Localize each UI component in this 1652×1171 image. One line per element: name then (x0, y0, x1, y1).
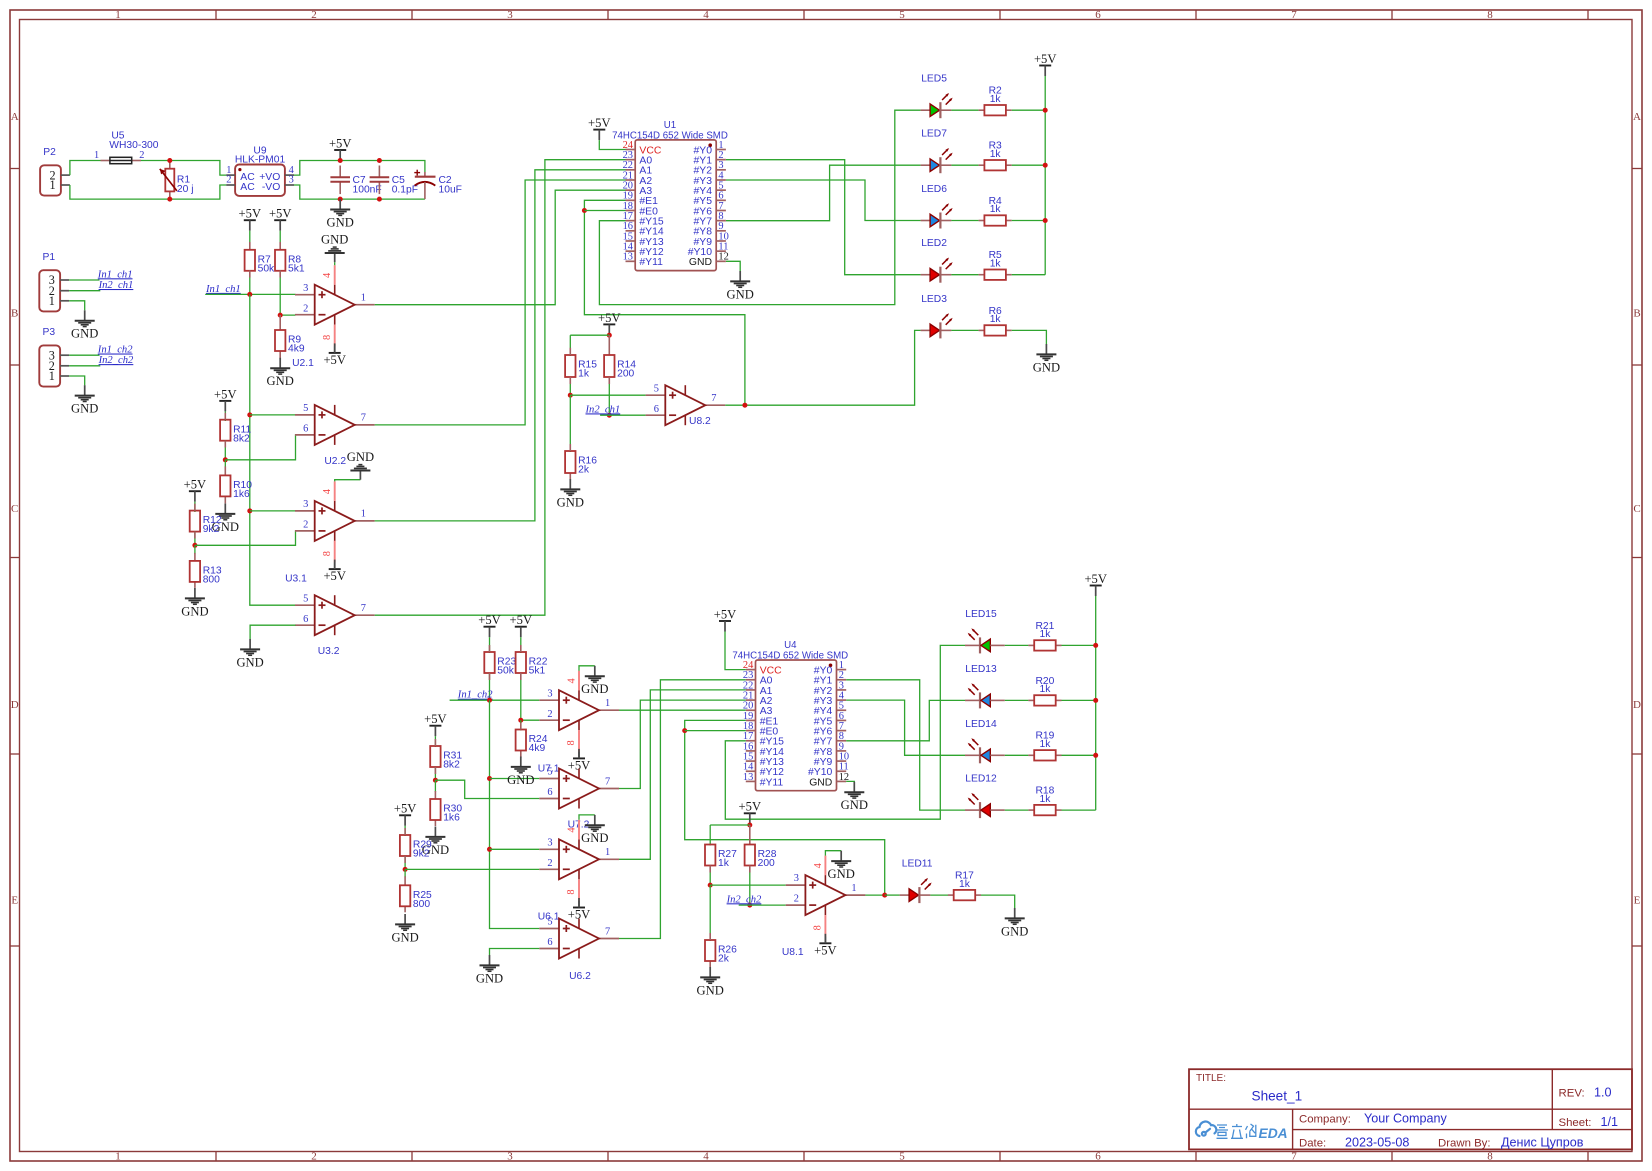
svg-text:3: 3 (303, 499, 308, 510)
resistor R15 (565, 355, 575, 377)
node LED bus row2 (1043, 163, 1048, 168)
svg-text:#Y11: #Y11 (760, 777, 784, 788)
svg-text:GND: GND (71, 402, 98, 416)
svg-text:8k2: 8k2 (443, 760, 460, 771)
+5V LED bus bottom (1090, 585, 1102, 587)
svg-text:A: A (1633, 111, 1641, 123)
svg-text:5: 5 (654, 383, 659, 394)
wire R3 to +5V bus (1012, 164, 1045, 166)
resistor R23 (484, 652, 494, 673)
wire into R15 (569, 335, 571, 356)
svg-text:E: E (11, 894, 18, 906)
ground U1 (739, 271, 741, 281)
svg-text:REV:: REV: (1559, 1087, 1585, 1099)
svg-text:6: 6 (654, 404, 659, 415)
LED LED11 (900, 894, 910, 896)
svg-text:GND: GND (181, 604, 208, 618)
svg-text:GND: GND (347, 450, 374, 464)
wire LED6 to R4 (951, 220, 978, 222)
wire U4 #Y3 to LED14 (846, 700, 965, 755)
wire U8.1 out (865, 894, 884, 896)
op-amp U2.1 GND (334, 253, 336, 262)
op-amp U2.1 pin 4 (334, 265, 336, 285)
svg-text:LED7: LED7 (921, 129, 947, 140)
ground R17 (1014, 908, 1016, 918)
svg-text:+5V: +5V (329, 136, 352, 150)
op-amp U3.1 (295, 510, 315, 512)
svg-text:WH30-300: WH30-300 (109, 140, 158, 151)
node R1 top (167, 158, 172, 163)
op-amp U7.1 pin 8 (578, 730, 580, 752)
svg-text:1k: 1k (990, 149, 1002, 160)
svg-text:P2: P2 (43, 147, 56, 158)
svg-text:5: 5 (547, 767, 552, 778)
node U8.1 out (882, 893, 887, 898)
svg-text:D: D (11, 699, 19, 711)
resistor R29 (400, 835, 410, 856)
svg-text:8: 8 (322, 335, 333, 340)
ground R6 (1045, 344, 1047, 354)
svg-text:7: 7 (605, 776, 610, 787)
wire LED12 to R18 (1005, 809, 1029, 811)
svg-text:In2_ch2: In2_ch2 (726, 894, 762, 905)
op-amp U7.1 (539, 699, 559, 701)
svg-text:6: 6 (1095, 9, 1101, 21)
svg-text:2k: 2k (578, 465, 590, 476)
svg-text:8: 8 (813, 925, 824, 930)
wire P1 pin1 to ground (69, 301, 85, 311)
svg-text:1: 1 (49, 294, 55, 308)
svg-text:1k: 1k (990, 314, 1002, 325)
ground R9 (279, 358, 281, 368)
svg-text:1: 1 (361, 293, 366, 304)
wire U7.1 out to U4 A3 (619, 709, 746, 711)
op-amp U8.1 pin 8 (824, 915, 826, 937)
svg-text:7: 7 (711, 393, 716, 404)
resistor R7 (249, 242, 251, 250)
svg-text:HLK-PM01: HLK-PM01 (235, 154, 286, 165)
resistor R5 (979, 274, 985, 276)
svg-text:U2.2: U2.2 (324, 456, 346, 467)
resistor R11 (220, 420, 230, 441)
svg-text:4: 4 (703, 9, 709, 21)
resistor R8 (279, 242, 281, 250)
svg-text:In1_ch1: In1_ch1 (205, 284, 241, 295)
svg-text:B: B (1633, 307, 1640, 319)
wire +5V LED bus bottom (1095, 596, 1097, 810)
wire node to R24 (520, 720, 522, 730)
wire U4 #Y7 to LED13 (846, 700, 965, 740)
svg-text:C: C (1633, 503, 1640, 515)
svg-text:5k1: 5k1 (529, 666, 546, 677)
svg-text:+5V: +5V (814, 943, 837, 957)
svg-text:3: 3 (289, 175, 294, 186)
wire U1 #Y3 to LED6 (726, 180, 921, 221)
node R14 / In2_ch1 (607, 413, 612, 418)
ground C7 (339, 199, 341, 209)
svg-text:8: 8 (566, 740, 577, 745)
wire to U8.2 pin5 (570, 394, 645, 396)
resistor R3 (979, 164, 985, 166)
svg-text:1: 1 (115, 1150, 121, 1162)
decoder U4 (756, 660, 837, 791)
svg-text:6: 6 (547, 937, 552, 948)
node R15/R16/U8.2 pin5 (568, 393, 573, 398)
+5V R11 (219, 400, 231, 402)
svg-text:EDA: EDA (1259, 1126, 1288, 1141)
svg-text:5: 5 (303, 403, 308, 414)
svg-text:5k1: 5k1 (288, 263, 305, 274)
wire P2 pin2 to fuse (70, 161, 101, 176)
wire to U8.1 pin3 (710, 884, 786, 886)
svg-text:6: 6 (303, 614, 308, 625)
svg-text:50k: 50k (258, 263, 275, 274)
svg-text:B: B (11, 307, 18, 319)
svg-text:4k9: 4k9 (529, 743, 546, 754)
wire U1 #Y1 to LED2 (726, 160, 921, 275)
wire U2.2 out to U1 A2 (375, 180, 626, 425)
resistor R9 (279, 315, 281, 330)
wire LED14 to R19 (1005, 754, 1029, 756)
wire R15 to node (569, 377, 571, 395)
svg-text:3: 3 (303, 283, 308, 294)
resistor R27 (705, 845, 715, 866)
svg-text:Денис Цупров: Денис Цупров (1501, 1136, 1584, 1150)
svg-text:1k: 1k (1040, 739, 1052, 750)
svg-text:GND: GND (581, 831, 608, 845)
ground R13 (194, 588, 196, 598)
svg-text:5: 5 (547, 917, 552, 928)
wire R2 to +5V bus (1012, 109, 1045, 111)
wire R28 to U8.1 pin2 (749, 866, 751, 906)
op-amp U8.1 GND (840, 851, 842, 861)
svg-text:+5V: +5V (1034, 52, 1057, 66)
node R29 / R25 (403, 867, 408, 872)
op-amp U6.1 +5V (573, 907, 585, 909)
op-amp U6.2 (539, 928, 559, 930)
svg-text:2: 2 (303, 303, 308, 314)
wire P1 pin3 (69, 279, 99, 281)
wire R21 to +5V bus (1062, 644, 1096, 646)
wire to U1 #E0 (584, 210, 625, 212)
svg-text:8: 8 (566, 889, 577, 894)
svg-text:LED6: LED6 (921, 184, 947, 195)
op-amp U6.1 pin 8 (578, 879, 580, 901)
svg-text:GND: GND (727, 287, 754, 301)
svg-text:GND: GND (267, 374, 294, 388)
LED LED15 (965, 644, 980, 646)
svg-text:13: 13 (743, 772, 753, 783)
resistor R12 (190, 511, 200, 532)
wire U4 #E0/#E1 from U8.1 (685, 720, 885, 895)
svg-text:1: 1 (115, 9, 121, 21)
wire to LED11 (885, 894, 900, 896)
node LED bus row1 (1093, 643, 1098, 648)
svg-text:U3.2: U3.2 (318, 646, 340, 657)
wire +5V to R23 (489, 637, 491, 653)
svg-text:+5V: +5V (510, 613, 533, 627)
node C7 top (338, 158, 343, 163)
connector P1 (39, 270, 60, 311)
svg-text:50k: 50k (497, 666, 514, 677)
node In1_ch1 / R7 (247, 292, 252, 297)
wire U4 #Y1 to LED12 (846, 680, 965, 810)
svg-text:GND: GND (1033, 360, 1060, 374)
wire node to R13 (194, 545, 196, 554)
title block (1189, 1069, 1632, 1149)
wire U4 GND pin (846, 780, 854, 783)
svg-text:2: 2 (311, 9, 317, 21)
wire +5V LED bus (1044, 76, 1046, 275)
fuse U5 (101, 160, 110, 162)
wire U1 #Y15 to LED5 (599, 110, 920, 304)
op-amp U2.1 +5V (329, 352, 341, 354)
wire R29 to R25 (404, 856, 406, 869)
wire P2 pin1 to U9 pin2 (70, 185, 226, 199)
decoder U1 (635, 140, 716, 271)
svg-text:LED5: LED5 (921, 74, 947, 85)
op-amp U8.1 +5V (819, 942, 831, 944)
wire node to R25 (404, 869, 406, 877)
svg-text:2: 2 (139, 150, 144, 161)
wire U8.2 out to LED3 (745, 330, 921, 405)
node R31 / R30 (433, 778, 438, 783)
svg-text:8: 8 (1487, 1150, 1493, 1162)
svg-text:TITLE:: TITLE: (1196, 1073, 1226, 1084)
svg-text:2: 2 (311, 1150, 317, 1162)
wire R4 to +5V bus (1012, 220, 1045, 222)
wire LED2 to R5 (951, 274, 978, 276)
wire R11 to R10 (224, 441, 226, 460)
wire U1 #Y7 to LED7 (726, 165, 921, 221)
wire +5V to R8 (279, 231, 281, 242)
svg-text:#Y11: #Y11 (639, 257, 663, 268)
svg-text:200: 200 (617, 369, 634, 380)
svg-text:+5V: +5V (714, 607, 737, 621)
LED LED14 (965, 754, 980, 756)
svg-text:1: 1 (49, 369, 55, 383)
svg-text:1.0: 1.0 (1594, 1086, 1612, 1100)
wire node to R30 (434, 780, 436, 792)
node R8 / R9 (278, 313, 283, 318)
AC-DC module U9 (235, 165, 285, 196)
+5V U8.1 divider (744, 812, 756, 814)
LED LED6 (921, 220, 931, 222)
svg-text:+5V: +5V (394, 802, 417, 816)
+5V U8.2 divider (603, 323, 615, 325)
svg-text:Sheet_1: Sheet_1 (1252, 1088, 1303, 1103)
svg-text:LED3: LED3 (921, 294, 947, 305)
+5V R12 (189, 490, 201, 492)
node C5 top (377, 158, 382, 163)
ground R26 (709, 967, 711, 977)
node C7 bottom (338, 197, 343, 202)
svg-text:+5V: +5V (739, 800, 762, 814)
node +5V R27/R28 (747, 823, 752, 828)
svg-text:1k: 1k (959, 879, 971, 890)
op-amp U2.2 (295, 414, 315, 416)
wire P3 pin3 (69, 354, 99, 356)
op-amp U2.1 (295, 294, 315, 296)
svg-text:3: 3 (507, 1150, 513, 1162)
svg-text:6: 6 (303, 424, 308, 435)
ground U3.2 (249, 639, 251, 649)
+5V R7 (244, 219, 256, 221)
svg-text:-VO: -VO (262, 182, 280, 193)
wire fuse to U9 pin1 (141, 161, 226, 176)
op-amp U2.1 pin 8 (334, 325, 336, 347)
resistor R18 (1028, 809, 1034, 811)
wire R6 to ground (1012, 330, 1047, 344)
capacitor C2 (424, 172, 426, 177)
svg-text:7: 7 (361, 603, 366, 614)
ground R25 (404, 914, 406, 924)
wire In1_ch1 to U2.1 pin3 (205, 293, 295, 295)
svg-text:5: 5 (899, 9, 905, 21)
op-amp U7.1 GND (594, 666, 596, 676)
svg-text:9k2: 9k2 (413, 849, 430, 860)
wire U8.2 out (725, 404, 745, 406)
resistor R2 (979, 109, 985, 111)
svg-text:GND: GND (391, 930, 418, 944)
node R22 / R24 (518, 718, 523, 723)
svg-text:2: 2 (226, 175, 231, 186)
svg-text:AC: AC (240, 182, 255, 193)
connector P3 (39, 345, 60, 386)
wire to U6.1 pin3 (490, 848, 540, 850)
wire LED11 to R17 (930, 894, 948, 896)
svg-text:GND: GND (809, 777, 832, 788)
svg-text:GND: GND (557, 495, 584, 509)
svg-text:Your Company: Your Company (1364, 1112, 1448, 1126)
wire LED3 to R6 (951, 329, 978, 331)
op-amp U6.1 GND (594, 815, 596, 825)
svg-text:LED13: LED13 (965, 664, 997, 675)
svg-text:GND: GND (697, 983, 724, 997)
wire node to R26 (709, 885, 711, 941)
ground U6.2 (489, 955, 491, 965)
svg-text:2: 2 (303, 520, 308, 531)
svg-text:0.1pF: 0.1pF (392, 185, 418, 196)
svg-text:2: 2 (547, 858, 552, 869)
svg-text:GND: GND (1001, 924, 1028, 938)
op-amp U3.2 (295, 604, 315, 606)
resistor R4 (979, 220, 985, 222)
op-amp U6.1 pin 4 (578, 820, 580, 840)
svg-text:1k: 1k (1040, 684, 1052, 695)
svg-text:8: 8 (1487, 9, 1493, 21)
svg-text:In2_ch2: In2_ch2 (98, 355, 134, 366)
wire to U4 #E0 (685, 730, 746, 732)
wire R27 top (710, 824, 750, 826)
svg-text:20 j: 20 j (177, 184, 194, 195)
wire R14 to U8.2 pin6 (608, 377, 610, 415)
wire divider to U7.2 pin6 (435, 780, 539, 798)
svg-text:GND: GND (581, 682, 608, 696)
wire node to R16 (569, 395, 571, 452)
wire U1 #E0/#E1 from U8.2 (584, 200, 745, 405)
svg-text:+5V: +5V (598, 311, 621, 325)
svg-text:In1_ch2: In1_ch2 (97, 345, 133, 356)
svg-text:4k9: 4k9 (288, 344, 305, 355)
resistor R13 (194, 553, 196, 561)
op-amp U3.1 pin 4 (334, 481, 336, 501)
resistor R14 (608, 335, 610, 355)
wire +5V to U4 VCC (725, 632, 746, 670)
resistor R6 (979, 329, 985, 331)
svg-text:U6.2: U6.2 (569, 971, 591, 982)
resistor R19 (1028, 754, 1034, 756)
svg-text:7: 7 (1291, 1150, 1297, 1162)
svg-text:GND: GND (507, 773, 534, 787)
wire to U3.1 pin3 (250, 510, 296, 512)
+5V rail (334, 149, 346, 151)
+5V R31 (429, 725, 441, 727)
node R27/R26/U8.1 pin3 (708, 883, 713, 888)
logo (1196, 1122, 1216, 1136)
svg-text:8: 8 (322, 551, 333, 556)
wire LED5 to R2 (951, 109, 978, 111)
wire +5V to R7 (249, 231, 251, 242)
svg-text:7: 7 (361, 413, 366, 424)
svg-text:+5V: +5V (184, 478, 207, 492)
svg-text:200: 200 (758, 858, 775, 869)
svg-text:10uF: 10uF (439, 185, 462, 196)
svg-text:D: D (1633, 699, 1641, 711)
wire node to R10 (224, 460, 226, 468)
+5V R22 (515, 626, 527, 628)
svg-text:1k6: 1k6 (443, 813, 460, 824)
svg-text:4: 4 (703, 1150, 709, 1162)
svg-text:+5V: +5V (478, 613, 501, 627)
svg-text:8k2: 8k2 (233, 433, 250, 444)
wire +5V to R11 (224, 411, 226, 421)
svg-text:4: 4 (322, 272, 333, 278)
capacitor C7 (339, 166, 341, 178)
resistor R17 (948, 894, 954, 896)
svg-text:4: 4 (322, 488, 333, 494)
LED LED12 (965, 809, 980, 811)
svg-text:1/1: 1/1 (1601, 1115, 1619, 1129)
wire R23 to In1_ch2 (489, 673, 491, 700)
svg-text:13: 13 (623, 252, 633, 263)
wire R27 to node (709, 866, 711, 886)
op-amp U3.1 pin 8 (334, 541, 336, 563)
svg-text:4: 4 (566, 827, 577, 833)
svg-text:3: 3 (547, 837, 552, 848)
svg-text:1: 1 (50, 178, 56, 192)
svg-text:+5V: +5V (424, 712, 447, 726)
svg-text:800: 800 (203, 575, 220, 586)
svg-text:+5V: +5V (323, 353, 346, 367)
wire In1_ch2 to U7.1 pin3 (450, 699, 540, 701)
wire In2_ch1 to U8.2 pin6 (600, 414, 646, 416)
wire R20 to +5V bus (1062, 699, 1096, 701)
svg-text:A: A (11, 111, 19, 123)
svg-text:U8.1: U8.1 (782, 947, 804, 958)
svg-text:GND: GND (327, 215, 354, 229)
svg-text:800: 800 (413, 899, 430, 910)
wire LED7 to R3 (951, 164, 978, 166)
ground P1 (84, 310, 86, 320)
node LED bus row2 (1093, 698, 1098, 703)
node R28 / In2_ch2 (747, 903, 752, 908)
svg-text:1k: 1k (1040, 794, 1052, 805)
node In1_ch2 / U6.1 pin3 (487, 847, 492, 852)
wire +5V to U1 VCC (599, 140, 625, 149)
+5V U4 (719, 620, 731, 622)
+5V LED bus top (1039, 65, 1051, 67)
